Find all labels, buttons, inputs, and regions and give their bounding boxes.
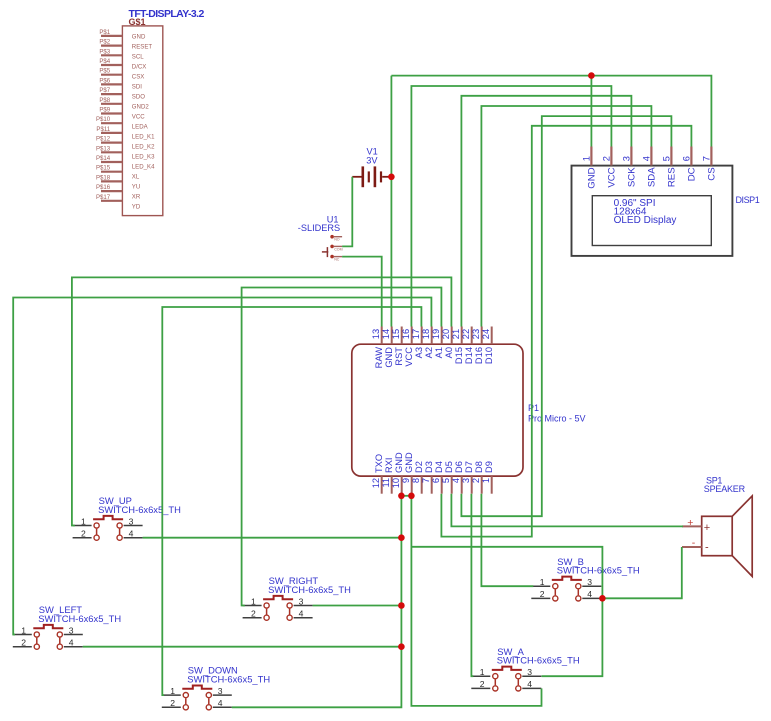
svg-text:+: +: [704, 522, 710, 534]
speaker SP1: [682, 475, 752, 576]
svg-text:GND: GND: [586, 167, 597, 188]
svg-text:GND: GND: [404, 452, 414, 473]
svg-text:P$12: P$12: [96, 136, 111, 143]
pin P$4 (D/CX): [101, 64, 122, 66]
svg-text:DC: DC: [686, 167, 697, 181]
P1 pin 18 A2: [431, 327, 433, 345]
P1 pin 5 D5: [451, 476, 453, 494]
svg-text:SWITCH-6x6x5_TH: SWITCH-6x6x5_TH: [187, 674, 270, 685]
slide switch U1 -SLIDERS: [298, 214, 343, 261]
svg-text:5: 5: [662, 156, 672, 161]
svg-text:-: -: [705, 542, 709, 554]
P1 pin 12 TXO: [381, 476, 383, 494]
pushbutton SW_RIGHT SWITCH-6x6x5_TH: [243, 575, 351, 620]
P1 pin 21 D15: [461, 327, 463, 345]
svg-text:RAW: RAW: [374, 347, 384, 369]
DISP1 pin 4 SDA: [650, 147, 652, 166]
svg-text:GND: GND: [384, 347, 394, 368]
OLED display DISP1: [572, 147, 760, 256]
svg-text:LEDA: LEDA: [132, 124, 149, 131]
wire P1 A1 to SW_RIGHT pin1: [242, 288, 442, 606]
svg-text:A3: A3: [414, 347, 424, 358]
svg-text:D8: D8: [474, 461, 484, 473]
wire SW_LEFT pin4 to GND: [83, 646, 402, 648]
pin P$17 (YD): [101, 200, 122, 202]
U1 pin 2 COM: [330, 245, 334, 249]
DISP1 pin 5 RES: [670, 147, 672, 166]
pin P$16 (XR): [101, 190, 122, 192]
wire P1 VCC to DISP1 VCC: [411, 86, 611, 327]
P1 pin 20 A0: [451, 327, 453, 345]
pin P$10 (LEDA): [101, 122, 122, 124]
P1 pin 17 A3: [421, 327, 423, 345]
svg-text:P$3: P$3: [99, 48, 110, 55]
pin P$2 (RESET): [101, 44, 122, 46]
svg-text:P1: P1: [528, 403, 539, 413]
svg-text:SDO: SDO: [132, 94, 145, 101]
DISP1 pin 3 SCK: [630, 147, 632, 166]
svg-text:SCK: SCK: [626, 167, 637, 187]
svg-text:Pro Micro - 5V: Pro Micro - 5V: [528, 413, 586, 423]
U1 pin 3 NC: [330, 255, 334, 259]
svg-text:SWITCH-6x6x5_TH: SWITCH-6x6x5_TH: [98, 504, 181, 515]
DISP1 pin 7 CS: [710, 147, 712, 166]
svg-text:SWITCH-6x6x5_TH: SWITCH-6x6x5_TH: [38, 613, 121, 624]
svg-text:D6: D6: [454, 461, 464, 473]
wire P1 A2 to SW_LEFT pin1: [13, 298, 431, 635]
wire SW_UP pin4 to GND: [143, 537, 402, 539]
svg-text:11: 11: [381, 478, 391, 488]
svg-text:16: 16: [401, 329, 411, 339]
svg-text:GND: GND: [394, 452, 404, 473]
wire P1 D16 to DISP1 SDA: [481, 106, 651, 327]
svg-text:7: 7: [421, 478, 431, 483]
wire SW_B pin4 to SP1 -: [602, 547, 681, 598]
junction SW_B pin4: [599, 595, 606, 602]
svg-text:4: 4: [642, 156, 652, 161]
P1 pin 7 D3: [431, 476, 433, 494]
P1 pin 10 GND: [401, 476, 403, 494]
svg-text:GND: GND: [132, 33, 146, 40]
svg-text:6: 6: [682, 156, 692, 161]
P1 pin 23 D16: [481, 327, 483, 345]
P1 pin 6 D4: [441, 476, 443, 494]
pin P$14 (LED_K4): [101, 161, 122, 163]
wire battery- to P1 GND pin14 (vertical): [390, 76, 392, 327]
svg-text:GND2: GND2: [132, 104, 150, 111]
P1 pin 22 D14: [471, 327, 473, 345]
svg-text:LED_K1: LED_K1: [132, 134, 155, 141]
P1 pin 24 D10: [491, 327, 493, 345]
P1 pin 15 RST: [401, 327, 403, 345]
DISP1 pin 1 GND: [590, 147, 592, 166]
svg-text:CSX: CSX: [132, 73, 145, 80]
wire P1 D5 to SP1 +: [451, 494, 683, 527]
svg-text:D4: D4: [434, 461, 444, 473]
wire GND vertical to SW_DOWN pin4: [232, 496, 402, 708]
P1 pin 19 A1: [441, 327, 443, 345]
svg-text:-: -: [692, 537, 696, 549]
wire P1 A3 to SW_DOWN pin1: [162, 307, 421, 695]
pin P$11 (LED_K1): [101, 132, 122, 134]
svg-text:SWITCH-6x6x5_TH: SWITCH-6x6x5_TH: [497, 655, 580, 666]
svg-text:D5: D5: [444, 461, 454, 473]
svg-text:A2: A2: [424, 347, 434, 358]
SP1 pin +: [682, 525, 702, 527]
svg-text:P$1: P$1: [99, 29, 110, 36]
svg-text:1: 1: [582, 156, 592, 161]
svg-text:18: 18: [421, 329, 431, 339]
svg-text:RST: RST: [394, 347, 404, 366]
svg-text:14: 14: [381, 329, 391, 339]
svg-text:3: 3: [461, 478, 471, 483]
svg-text:D14: D14: [464, 347, 474, 364]
svg-text:15: 15: [391, 329, 401, 339]
wire U1 NC to P1 RAW: [342, 257, 382, 327]
svg-text:D3: D3: [424, 461, 434, 473]
svg-text:9: 9: [401, 478, 411, 483]
svg-text:23: 23: [471, 329, 481, 339]
svg-text:D2: D2: [414, 461, 424, 473]
junction SW_UP pin4: [398, 534, 405, 541]
junction battery-: [388, 174, 395, 181]
svg-text:-SLIDERS: -SLIDERS: [298, 223, 340, 233]
svg-text:LED_K2: LED_K2: [132, 144, 155, 151]
P1 pin 3 D7: [471, 476, 473, 494]
wire P1 D6 to DISP1 RES: [461, 116, 671, 516]
svg-text:D15: D15: [454, 347, 464, 364]
svg-text:7: 7: [702, 156, 712, 161]
svg-text:VCC: VCC: [132, 114, 145, 121]
svg-text:4: 4: [451, 478, 461, 483]
wire P1 D4 to DISP1 DC: [441, 126, 691, 537]
svg-text:A1: A1: [434, 347, 444, 358]
svg-text:P$7: P$7: [99, 87, 110, 94]
SP1 pin -: [682, 546, 702, 548]
wire branch to DISP1 GND: [590, 76, 592, 147]
svg-text:P$9: P$9: [99, 107, 110, 114]
wire P1 A0 to SW_UP pin1: [72, 277, 452, 525]
wire GND branch to SW_A pin3: [411, 547, 602, 676]
svg-text:D16: D16: [474, 347, 484, 364]
TFT display module G$1: [96, 8, 205, 216]
svg-text:YD: YD: [132, 204, 141, 211]
svg-text:P$14: P$14: [96, 155, 111, 162]
svg-text:22: 22: [461, 329, 471, 339]
svg-text:P$17: P$17: [96, 194, 111, 201]
svg-text:P$16: P$16: [96, 184, 111, 191]
pin P$8 (GND2): [101, 103, 122, 105]
svg-text:COM: COM: [334, 247, 342, 251]
pushbutton SW_DOWN SWITCH-6x6x5_TH: [162, 665, 270, 710]
svg-text:VCC: VCC: [404, 347, 414, 367]
junction SW_RIGHT pin3: [398, 602, 405, 609]
P1 pin 2 D8: [481, 476, 483, 494]
pin P$1 (GND): [101, 35, 122, 37]
svg-text:8: 8: [411, 478, 421, 483]
svg-text:5: 5: [441, 478, 451, 483]
svg-text:NO: NO: [334, 238, 340, 242]
pin P$6 (SDI): [101, 83, 122, 85]
svg-text:3V: 3V: [366, 156, 378, 166]
svg-text:P$5: P$5: [99, 68, 110, 75]
P1 pin 16 VCC: [411, 327, 413, 345]
svg-text:A0: A0: [444, 347, 454, 358]
svg-text:2: 2: [602, 156, 612, 161]
pin P$5 (CSX): [101, 74, 122, 76]
pushbutton SW_UP SWITCH-6x6x5_TH: [73, 495, 181, 540]
svg-text:P$4: P$4: [99, 58, 110, 65]
svg-text:SDI: SDI: [132, 84, 142, 91]
pin P$15 (XL): [101, 171, 122, 173]
svg-text:RXI: RXI: [384, 458, 394, 474]
pushbutton SW_B SWITCH-6x6x5_TH: [531, 556, 639, 601]
svg-text:D/CX: D/CX: [132, 63, 147, 70]
wire P1 D15 to DISP1 SCK: [461, 96, 631, 327]
wire battery- to DISP1 CS: [391, 76, 711, 147]
P1 pin 8 D2: [421, 476, 423, 494]
svg-text:P$18: P$18: [96, 174, 111, 181]
svg-text:17: 17: [411, 329, 421, 339]
svg-text:DISP1: DISP1: [736, 195, 760, 205]
pin P$18 (YU): [101, 180, 122, 182]
svg-text:P$2: P$2: [99, 39, 110, 46]
svg-text:12: 12: [371, 478, 381, 488]
svg-text:P$8: P$8: [99, 97, 110, 104]
svg-text:2: 2: [471, 478, 481, 483]
svg-text:P$11: P$11: [96, 126, 110, 133]
wire GND loop to SW_A pin4: [411, 496, 541, 706]
pin P$9 (VCC): [101, 112, 122, 114]
svg-text:24: 24: [481, 329, 491, 339]
svg-text:RESET: RESET: [132, 43, 153, 50]
pin P$13 (LED_K3): [101, 151, 122, 153]
microcontroller P1 Pro Micro - 5V: [352, 327, 586, 494]
P1 pin 9 GND: [411, 476, 413, 494]
svg-text:10: 10: [391, 478, 401, 488]
svg-text:3: 3: [622, 156, 632, 161]
svg-text:XL: XL: [132, 174, 140, 181]
svg-text:D10: D10: [484, 347, 494, 364]
svg-text:P$15: P$15: [96, 165, 111, 172]
svg-text:21: 21: [451, 329, 461, 339]
wire U1 COM to battery+: [342, 177, 352, 247]
svg-text:P$10: P$10: [96, 116, 111, 123]
pin P$12 (LED_K2): [101, 142, 122, 144]
P1 pin 14 GND: [391, 327, 393, 345]
svg-text:13: 13: [371, 329, 381, 339]
pushbutton SW_A SWITCH-6x6x5_TH: [471, 646, 579, 691]
U1 pin 1 NO: [330, 235, 334, 239]
wire P1 D7 to SW_A pin1: [471, 494, 473, 677]
wire SW_RIGHT pin3 to GND: [313, 605, 402, 607]
junction DISP1 GND net: [588, 72, 595, 79]
svg-text:P$6: P$6: [99, 77, 110, 84]
svg-text:LED_K4: LED_K4: [132, 164, 155, 171]
svg-text:TXO: TXO: [374, 454, 384, 473]
wire P1 D8 to SW_B pin1: [481, 494, 533, 587]
svg-text:SCL: SCL: [132, 53, 144, 60]
svg-text:YU: YU: [132, 184, 140, 191]
svg-text:D9: D9: [484, 461, 494, 473]
svg-text:XR: XR: [132, 194, 141, 201]
svg-text:P$13: P$13: [96, 145, 111, 152]
pushbutton SW_LEFT SWITCH-6x6x5_TH: [13, 604, 121, 649]
svg-text:20: 20: [441, 329, 451, 339]
DISP1 pin 6 DC: [690, 147, 692, 166]
svg-text:NC: NC: [334, 258, 340, 262]
svg-text:19: 19: [431, 329, 441, 339]
U1 lever: [326, 247, 328, 257]
svg-text:CS: CS: [706, 167, 717, 180]
DISP1 pin 2 VCC: [610, 147, 612, 166]
wire GND pins 10-9 stub: [401, 495, 411, 497]
svg-text:OLED Display: OLED Display: [614, 215, 677, 226]
svg-text:RES: RES: [666, 167, 677, 187]
pin P$3 (SCL): [101, 54, 122, 56]
svg-text:SPEAKER: SPEAKER: [704, 484, 746, 494]
junction SW_LEFT pin4: [398, 643, 405, 650]
svg-text:SDA: SDA: [646, 167, 657, 187]
P1 pin 4 D6: [461, 476, 463, 494]
P1 pin 11 RXI: [391, 476, 393, 494]
svg-text:D7: D7: [464, 461, 474, 473]
svg-text:1: 1: [481, 478, 491, 483]
svg-text:LED_K3: LED_K3: [132, 154, 155, 161]
svg-text:+: +: [687, 517, 693, 529]
svg-text:6: 6: [431, 478, 441, 483]
junction P1 GND pin10: [398, 493, 405, 500]
svg-text:VCC: VCC: [606, 167, 617, 187]
battery V1 3V: [352, 147, 391, 188]
svg-text:SWITCH-6x6x5_TH: SWITCH-6x6x5_TH: [557, 565, 640, 576]
P1 pin 13 RAW: [381, 327, 383, 345]
P1 pin 1 D9: [491, 476, 493, 494]
svg-text:SWITCH-6x6x5_TH: SWITCH-6x6x5_TH: [268, 584, 351, 595]
junction P1 GND pin9: [408, 493, 415, 500]
pin P$7 (SDO): [101, 93, 122, 95]
